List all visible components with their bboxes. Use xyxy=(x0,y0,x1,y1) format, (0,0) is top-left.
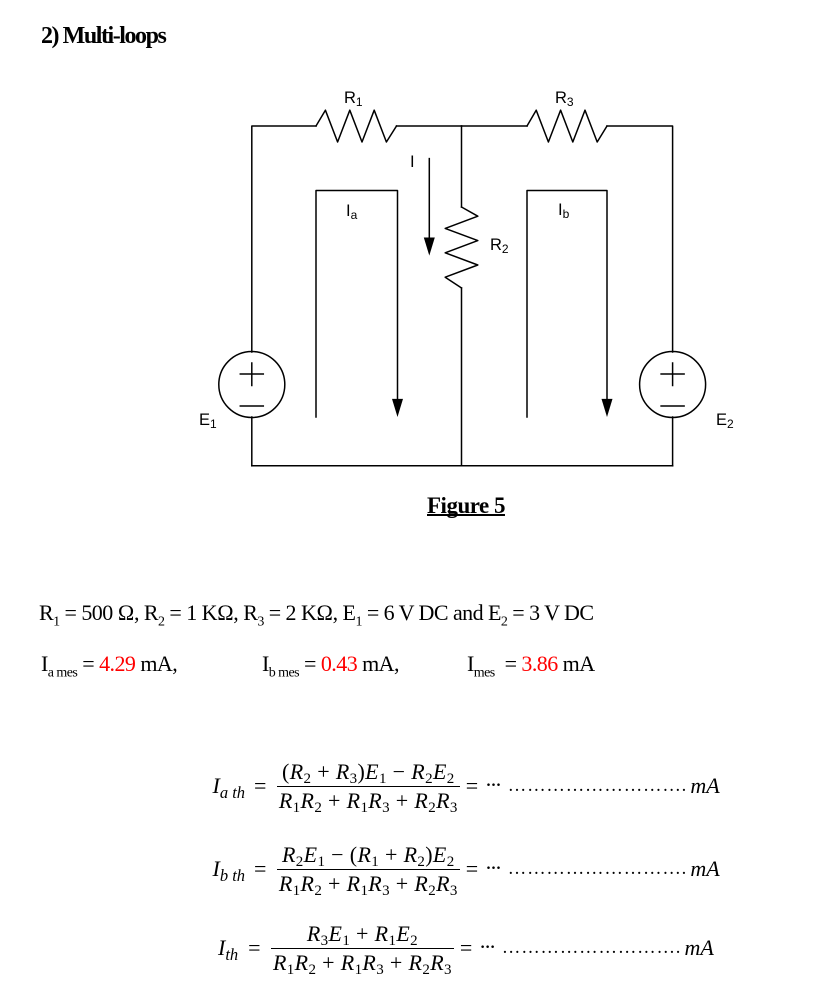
resistor R3 xyxy=(527,110,607,142)
loop current Ib xyxy=(527,191,613,418)
formula Ib th xyxy=(213,839,720,899)
measured values line xyxy=(41,651,177,681)
label R1 xyxy=(344,89,363,109)
formula Ia th xyxy=(213,756,720,816)
wire: from E2 negative terminal down to bottom-right corner xyxy=(672,417,674,466)
resistor R2 xyxy=(445,207,478,288)
label Ib xyxy=(558,201,570,221)
voltage source E1 xyxy=(219,352,285,418)
wire: top, from middle node to R3 xyxy=(462,125,528,127)
wire: top, from R1 to middle node xyxy=(397,125,462,127)
svg-text:E1: E1 xyxy=(199,411,217,431)
wire: left side from top-left corner down to E1 top terminal xyxy=(252,126,316,352)
label R2 xyxy=(490,236,509,256)
label I xyxy=(410,153,415,171)
label Ia xyxy=(346,202,358,222)
svg-text:E2: E2 xyxy=(716,411,734,431)
wire: middle branch from R2 down to bottom node xyxy=(461,288,463,465)
svg-text:R1: R1 xyxy=(344,89,363,109)
wire: right side from R3 to E2 top terminal xyxy=(607,126,673,352)
wire: from E1 negative terminal down to bottom-left corner xyxy=(251,417,253,466)
svg-text:R2: R2 xyxy=(490,236,509,256)
svg-text:Ia: Ia xyxy=(346,202,358,222)
parameters line xyxy=(39,600,593,630)
circuit schematic xyxy=(0,0,826,560)
label R3 xyxy=(555,89,574,109)
loop current Ia xyxy=(316,191,403,418)
caption: Figure 5 xyxy=(427,493,505,519)
label E1 xyxy=(199,411,217,431)
wire: bottom from left corner to right corner xyxy=(252,465,673,467)
svg-text:R3: R3 xyxy=(555,89,574,109)
label E2 xyxy=(716,411,734,431)
resistor R1 xyxy=(316,110,397,142)
voltage source E2 xyxy=(640,352,706,418)
heading: 2) Multi-loops xyxy=(41,23,165,50)
current arrow I through R2 xyxy=(424,159,435,256)
svg-text:I: I xyxy=(410,153,415,171)
svg-text:Ib: Ib xyxy=(558,201,570,221)
wire: middle branch from top node down to R2 xyxy=(461,126,463,207)
formula Ith xyxy=(218,918,714,978)
